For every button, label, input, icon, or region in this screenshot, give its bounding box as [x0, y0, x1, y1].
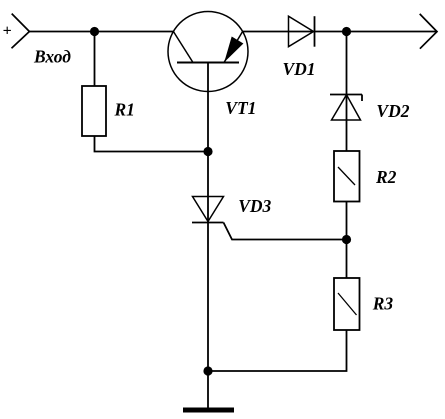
wire node A down to R1	[94, 32, 96, 87]
svg-text:VT1: VT1	[225, 98, 256, 118]
svg-text:R2: R2	[375, 167, 397, 187]
wire VD3 gate to node D	[224, 223, 347, 240]
wire R3 bottom to node E	[208, 330, 347, 371]
wire transistor emitter to VD1 anode	[243, 31, 437, 33]
resistor R2	[334, 151, 360, 202]
wire input to transistor collector	[29, 31, 173, 33]
svg-text:VD2: VD2	[376, 101, 409, 121]
input connector arrow	[12, 14, 30, 49]
wire R1 bottom to node B	[95, 136, 209, 152]
node B base junction	[203, 147, 212, 156]
svg-text:VD1: VD1	[283, 59, 316, 79]
node A junction input/R1	[90, 27, 99, 36]
node C top right junction	[342, 27, 351, 36]
wire R2 to node D	[346, 202, 348, 240]
resistor R1	[82, 86, 106, 136]
svg-text:+: +	[3, 23, 12, 40]
svg-text:VD3: VD3	[238, 196, 271, 216]
wire VD3 cathode down to node E	[207, 223, 209, 372]
wire node E to ground	[207, 371, 209, 408]
wire transistor base down through node B to VD3 anode	[207, 63, 209, 223]
svg-text:R3: R3	[372, 294, 394, 314]
diode VD1	[289, 16, 315, 47]
wire node D to R3	[346, 240, 348, 279]
thyristor VD3	[192, 197, 224, 223]
ground	[183, 408, 234, 413]
node E bottom junction	[203, 366, 212, 375]
svg-text:Вход: Вход	[33, 47, 71, 67]
output connector arrow	[420, 14, 437, 49]
svg-text:R1: R1	[114, 100, 135, 120]
transistor VT1	[168, 12, 248, 92]
resistor R3	[334, 278, 360, 330]
node D right junction	[342, 235, 351, 244]
zener diode VD2	[330, 95, 362, 121]
wire node C down to VD2 cathode	[346, 32, 348, 152]
